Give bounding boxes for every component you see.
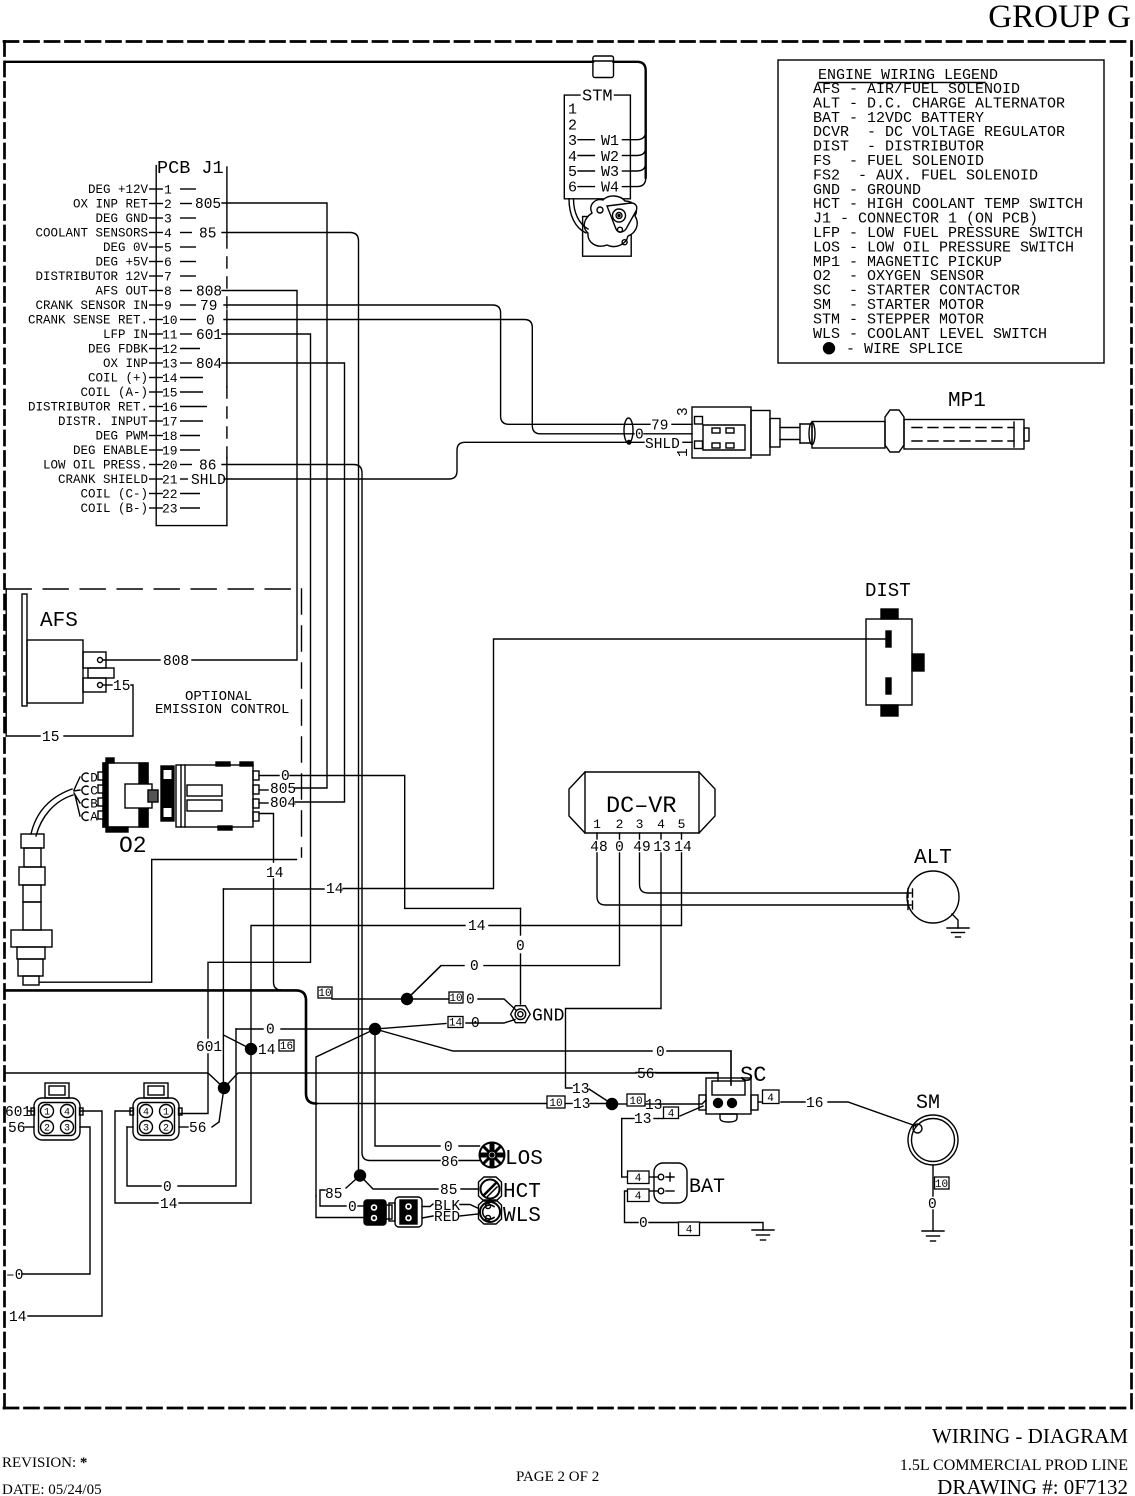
svg-text:601: 601 bbox=[5, 1105, 31, 1121]
svg-text:0: 0 bbox=[615, 840, 624, 856]
svg-text:AFS OUT: AFS OUT bbox=[95, 285, 148, 299]
svg-text:601: 601 bbox=[196, 328, 222, 344]
svg-text:10: 10 bbox=[449, 993, 462, 1005]
svg-text:–0: –0 bbox=[6, 1268, 23, 1284]
svg-text:6: 6 bbox=[568, 180, 577, 197]
svg-text:W3: W3 bbox=[601, 164, 619, 181]
svg-text:COIL (+): COIL (+) bbox=[88, 372, 148, 386]
svg-text:0: 0 bbox=[635, 428, 644, 444]
svg-text:DRAWING #: 0F7132: DRAWING #: 0F7132 bbox=[937, 1475, 1128, 1496]
svg-text:601: 601 bbox=[196, 1040, 222, 1056]
svg-text:4: 4 bbox=[64, 1108, 70, 1119]
svg-text:AFS: AFS bbox=[40, 610, 78, 633]
svg-text:LFP IN: LFP IN bbox=[103, 328, 148, 342]
svg-text:13: 13 bbox=[634, 1112, 651, 1128]
svg-text:PCB J1: PCB J1 bbox=[157, 158, 224, 179]
svg-text:STM: STM bbox=[582, 88, 613, 107]
svg-text:13: 13 bbox=[653, 840, 670, 856]
svg-text:85: 85 bbox=[440, 1183, 457, 1199]
svg-text:4: 4 bbox=[657, 817, 665, 832]
svg-text:14: 14 bbox=[9, 1310, 26, 1326]
svg-text:13: 13 bbox=[573, 1097, 590, 1113]
svg-text:8: 8 bbox=[164, 284, 172, 299]
svg-text:10: 10 bbox=[935, 1179, 948, 1191]
svg-text:804: 804 bbox=[196, 357, 222, 373]
svg-text:LOS: LOS bbox=[505, 1148, 543, 1171]
svg-text:19: 19 bbox=[162, 444, 178, 459]
svg-text:B: B bbox=[90, 798, 98, 812]
svg-text:2: 2 bbox=[568, 118, 577, 135]
svg-text:DEG FDBK: DEG FDBK bbox=[88, 343, 149, 357]
svg-text:4: 4 bbox=[767, 1093, 774, 1105]
svg-text:OX INP RET: OX INP RET bbox=[73, 198, 149, 212]
svg-text:3: 3 bbox=[568, 133, 577, 150]
svg-text:0: 0 bbox=[348, 1200, 357, 1216]
svg-text:1: 1 bbox=[164, 183, 172, 198]
svg-text:3: 3 bbox=[676, 407, 692, 416]
svg-text:9: 9 bbox=[164, 299, 172, 314]
svg-text:DIST: DIST bbox=[865, 580, 911, 602]
svg-text:WIRING - DIAGRAM: WIRING - DIAGRAM bbox=[932, 1424, 1128, 1448]
svg-text:GROUP G: GROUP G bbox=[988, 0, 1131, 35]
svg-text:18: 18 bbox=[162, 429, 178, 444]
svg-text:SHLD: SHLD bbox=[191, 473, 226, 489]
svg-text:14: 14 bbox=[162, 371, 178, 386]
svg-text:14: 14 bbox=[266, 866, 283, 882]
svg-text:14: 14 bbox=[449, 1018, 463, 1030]
svg-text:DEG +12V: DEG +12V bbox=[88, 183, 149, 197]
svg-text:2: 2 bbox=[44, 1124, 50, 1135]
svg-text:DISTRIBUTOR RET.: DISTRIBUTOR RET. bbox=[28, 401, 148, 415]
svg-text:7: 7 bbox=[164, 270, 172, 285]
svg-text:EMISSION CONTROL: EMISSION CONTROL bbox=[155, 702, 289, 718]
svg-text:COIL (C-): COIL (C-) bbox=[80, 488, 148, 502]
svg-text:4: 4 bbox=[668, 1109, 675, 1121]
svg-text:4: 4 bbox=[143, 1108, 149, 1119]
svg-text:WLS: WLS bbox=[503, 1205, 541, 1228]
svg-text:0: 0 bbox=[163, 1180, 172, 1196]
svg-text:56: 56 bbox=[637, 1067, 654, 1083]
svg-text:5: 5 bbox=[164, 241, 172, 256]
svg-text:DISTRIBUTOR 12V: DISTRIBUTOR 12V bbox=[35, 270, 148, 284]
svg-text:SM: SM bbox=[916, 1092, 940, 1115]
svg-text:CRANK SENSOR IN: CRANK SENSOR IN bbox=[35, 299, 148, 313]
svg-text:4: 4 bbox=[164, 226, 172, 241]
svg-text:CRANK SENSE RET.: CRANK SENSE RET. bbox=[28, 314, 148, 328]
svg-text:A: A bbox=[90, 811, 98, 825]
svg-text:DEG PWM: DEG PWM bbox=[95, 430, 148, 444]
svg-text:MP1: MP1 bbox=[948, 390, 986, 413]
svg-text:14: 14 bbox=[468, 919, 485, 935]
svg-text:16: 16 bbox=[280, 1041, 293, 1053]
svg-text:4: 4 bbox=[686, 1225, 693, 1237]
svg-text:DEG GND: DEG GND bbox=[95, 212, 148, 226]
svg-text:15: 15 bbox=[162, 386, 178, 401]
svg-text:17: 17 bbox=[162, 415, 178, 430]
svg-text:13: 13 bbox=[572, 1082, 589, 1098]
svg-text:1: 1 bbox=[593, 817, 601, 832]
svg-text:O2: O2 bbox=[119, 833, 147, 859]
svg-text:C: C bbox=[90, 785, 98, 799]
svg-text:23: 23 bbox=[162, 502, 178, 517]
svg-text:1: 1 bbox=[568, 102, 577, 119]
svg-text:10: 10 bbox=[549, 1098, 562, 1110]
svg-text:5: 5 bbox=[678, 817, 686, 832]
svg-text:3: 3 bbox=[143, 1124, 149, 1135]
svg-text:HCT: HCT bbox=[503, 1181, 541, 1204]
svg-text:6: 6 bbox=[164, 255, 172, 270]
svg-text:DC–VR: DC–VR bbox=[606, 793, 677, 820]
svg-text:BAT: BAT bbox=[689, 1176, 725, 1199]
svg-text:804: 804 bbox=[270, 796, 296, 812]
svg-text:ALT: ALT bbox=[914, 847, 952, 870]
svg-text:D: D bbox=[90, 772, 98, 786]
svg-text:5: 5 bbox=[568, 164, 577, 181]
svg-text:0: 0 bbox=[471, 1016, 480, 1032]
svg-text:2: 2 bbox=[616, 817, 624, 832]
svg-text:0: 0 bbox=[470, 959, 479, 975]
svg-text:REVISION: *: REVISION: * bbox=[2, 1455, 87, 1471]
svg-text:808: 808 bbox=[163, 654, 189, 670]
svg-text:1: 1 bbox=[44, 1108, 50, 1119]
svg-text:SC: SC bbox=[740, 1063, 766, 1088]
svg-text:20: 20 bbox=[162, 458, 178, 473]
svg-text:85: 85 bbox=[199, 227, 216, 243]
svg-text:805: 805 bbox=[195, 197, 221, 213]
svg-text:DATE: 05/24/05: DATE: 05/24/05 bbox=[2, 1482, 102, 1496]
svg-text:16: 16 bbox=[806, 1096, 823, 1112]
svg-text:22: 22 bbox=[162, 487, 178, 502]
svg-text:56: 56 bbox=[8, 1121, 25, 1137]
svg-text:10: 10 bbox=[162, 313, 178, 328]
svg-text:SHLD: SHLD bbox=[645, 437, 680, 453]
svg-text:DEG 0V: DEG 0V bbox=[103, 241, 149, 255]
svg-text:DEG +5V: DEG +5V bbox=[95, 256, 148, 270]
svg-text:12: 12 bbox=[162, 342, 178, 357]
svg-text:0: 0 bbox=[639, 1216, 648, 1232]
svg-text:DISTR. INPUT: DISTR. INPUT bbox=[58, 415, 149, 429]
svg-text:4: 4 bbox=[635, 1173, 642, 1185]
svg-text:RED: RED bbox=[434, 1210, 460, 1226]
svg-text:0: 0 bbox=[928, 1197, 937, 1213]
svg-text:3: 3 bbox=[64, 1124, 70, 1135]
svg-text:DEG ENABLE: DEG ENABLE bbox=[73, 444, 148, 458]
svg-text:10: 10 bbox=[318, 988, 331, 1000]
svg-text:85: 85 bbox=[325, 1187, 342, 1203]
svg-text:W1: W1 bbox=[601, 133, 619, 150]
svg-text:GND: GND bbox=[532, 1007, 564, 1027]
svg-text:21: 21 bbox=[162, 473, 178, 488]
svg-text:COOLANT SENSORS: COOLANT SENSORS bbox=[35, 227, 148, 241]
svg-text:48: 48 bbox=[590, 840, 607, 856]
svg-text:15: 15 bbox=[42, 730, 59, 746]
svg-text:14: 14 bbox=[258, 1043, 275, 1059]
svg-text:79: 79 bbox=[651, 419, 668, 435]
svg-text:14: 14 bbox=[160, 1197, 177, 1213]
svg-text:4: 4 bbox=[635, 1191, 642, 1203]
svg-text:0: 0 bbox=[516, 939, 525, 955]
svg-text:0: 0 bbox=[266, 1023, 275, 1039]
svg-text:49: 49 bbox=[633, 840, 650, 856]
svg-text:15: 15 bbox=[113, 679, 130, 695]
svg-text:86: 86 bbox=[441, 1155, 458, 1171]
svg-text:16: 16 bbox=[162, 400, 178, 415]
svg-text:1: 1 bbox=[676, 448, 692, 457]
svg-text:W4: W4 bbox=[601, 180, 619, 197]
svg-text:CRANK SHIELD: CRANK SHIELD bbox=[58, 473, 148, 487]
svg-text:56: 56 bbox=[189, 1121, 206, 1137]
svg-text:- WIRE SPLICE: - WIRE SPLICE bbox=[846, 341, 963, 358]
svg-text:COIL (A-): COIL (A-) bbox=[80, 386, 148, 400]
svg-text:0: 0 bbox=[466, 993, 475, 1009]
svg-text:2: 2 bbox=[164, 197, 172, 212]
svg-text:LOW OIL PRESS.: LOW OIL PRESS. bbox=[43, 459, 148, 473]
svg-text:0: 0 bbox=[656, 1045, 665, 1061]
svg-text:10: 10 bbox=[629, 1096, 642, 1108]
svg-text:13: 13 bbox=[162, 357, 178, 372]
svg-text:0: 0 bbox=[444, 1140, 453, 1156]
svg-text:2: 2 bbox=[163, 1124, 169, 1135]
svg-text:1: 1 bbox=[163, 1108, 169, 1119]
svg-text:14: 14 bbox=[674, 840, 691, 856]
svg-text:PAGE 2 OF 2: PAGE 2 OF 2 bbox=[516, 1469, 599, 1485]
svg-text:COIL (B-): COIL (B-) bbox=[80, 502, 148, 516]
svg-text:11: 11 bbox=[162, 328, 178, 343]
svg-text:3: 3 bbox=[636, 817, 644, 832]
svg-text:OX INP: OX INP bbox=[103, 357, 148, 371]
svg-text:14: 14 bbox=[326, 882, 343, 898]
svg-text:1.5L COMMERCIAL PROD LINE: 1.5L COMMERCIAL PROD LINE bbox=[900, 1457, 1128, 1474]
svg-text:3: 3 bbox=[164, 212, 172, 227]
